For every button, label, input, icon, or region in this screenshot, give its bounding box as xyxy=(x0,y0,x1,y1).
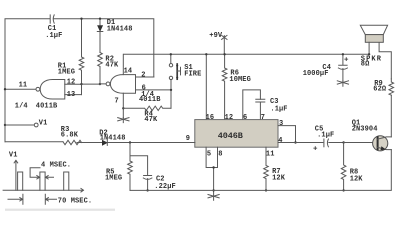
node C5/R8 junction xyxy=(342,141,344,143)
svg-text:.1µF: .1µF xyxy=(270,106,287,114)
resistor R6 xyxy=(222,54,227,119)
svg-text:2: 2 xyxy=(141,71,145,79)
capacitor C5 xyxy=(323,139,325,147)
label pin 5 xyxy=(207,151,211,159)
svg-text:12: 12 xyxy=(67,79,76,87)
svg-text:.1µF: .1µF xyxy=(317,131,334,139)
label pin 6 (IC) xyxy=(243,114,247,122)
op-amp gate U1b 1/4 4011B (second NAND, mirrored) xyxy=(110,75,135,94)
svg-text:V1: V1 xyxy=(9,151,18,159)
resistor R9 xyxy=(389,79,394,95)
svg-text:1N4148: 1N4148 xyxy=(100,135,126,143)
speaker SPKR 8ohm xyxy=(360,25,387,34)
svg-text:+: + xyxy=(313,146,318,154)
ground symbol IC xyxy=(208,190,219,200)
ground symbol gate2 xyxy=(118,118,129,123)
wire IC pin 11 / resistor R7 xyxy=(264,147,269,190)
wire IC pin 16 to rail xyxy=(205,54,207,119)
svg-text:3: 3 xyxy=(279,120,283,128)
label 1/4 4011B gate2 xyxy=(139,91,161,104)
resistor R4 xyxy=(123,106,171,110)
svg-text:FIRE: FIRE xyxy=(184,71,201,79)
resistor R8 xyxy=(341,143,346,191)
label pin 13 xyxy=(67,91,76,99)
svg-text:11: 11 xyxy=(266,151,275,159)
svg-text:1MEG: 1MEG xyxy=(105,174,122,182)
svg-text:1/4: 1/4 xyxy=(15,102,28,110)
svg-text:12: 12 xyxy=(225,114,234,122)
svg-text:+9V: +9V xyxy=(209,32,223,40)
wire V1 probe xyxy=(5,124,34,126)
svg-text:1000µF: 1000µF xyxy=(303,70,329,78)
label R4 xyxy=(144,111,158,125)
wire top rail y=18.7 with left rail xyxy=(5,19,50,142)
svg-text:4046B: 4046B xyxy=(218,131,243,141)
node V1 probe xyxy=(4,124,6,126)
label pin 3 xyxy=(279,120,283,128)
svg-text:1N4148: 1N4148 xyxy=(107,25,133,33)
diode D1 xyxy=(98,26,103,32)
svg-text:10MEG: 10MEG xyxy=(229,76,251,84)
power rail +9V y=54.3 xyxy=(124,53,369,55)
label R6 xyxy=(229,69,251,84)
resistor R3 xyxy=(63,140,82,144)
wire bottom net y=142.5 from left rail to IC pin 9 xyxy=(5,141,63,143)
wire gate1 output pin 11 to left rail xyxy=(5,88,36,90)
svg-text:9: 9 xyxy=(186,135,190,143)
svg-text:7: 7 xyxy=(261,114,265,122)
svg-text:1MEG: 1MEG xyxy=(58,68,75,76)
label pin 8 xyxy=(218,151,222,159)
svg-text:11: 11 xyxy=(19,82,28,90)
resistor R2 xyxy=(98,53,103,67)
svg-text:5: 5 xyxy=(207,151,211,159)
label R2 xyxy=(105,55,119,69)
label 1/4 4011B gate1 xyxy=(15,102,58,110)
svg-text:62Ω: 62Ω xyxy=(373,86,387,94)
svg-text:.22µF: .22µF xyxy=(154,183,176,191)
resistor R1 xyxy=(79,57,84,71)
svg-text:2N3904: 2N3904 xyxy=(352,125,378,133)
annotation 4 MSEC xyxy=(41,161,71,169)
label pin 7 xyxy=(115,97,119,105)
wire IC pin 3 jog to pin 4 net xyxy=(278,126,296,143)
annotation 70 MSEC xyxy=(58,197,92,205)
wire bottom rail xyxy=(130,150,391,191)
transistor Q1 2N3904 xyxy=(373,136,388,151)
svg-text:16: 16 xyxy=(206,114,215,122)
svg-text:70 MSEC.: 70 MSEC. xyxy=(58,197,92,205)
label pin 7 (IC) xyxy=(261,114,265,122)
op-amp gate U1a 1/4 4011B (left NAND, mirrored) xyxy=(40,80,65,100)
wire gate2 output to node xyxy=(82,83,107,85)
svg-text:47K: 47K xyxy=(144,116,158,124)
IC U2 4046B xyxy=(195,120,278,148)
svg-text:V1: V1 xyxy=(39,119,48,127)
wire R1 branch from top rail to gate1 inputs xyxy=(81,19,83,57)
svg-text:47K: 47K xyxy=(105,61,119,69)
svg-text:4: 4 xyxy=(278,137,282,145)
svg-text:12K: 12K xyxy=(272,175,286,183)
capacitor C2 branch xyxy=(130,156,148,191)
node S1 rail junction xyxy=(170,53,172,55)
resistor R5 xyxy=(128,143,133,191)
svg-text:8Ω: 8Ω xyxy=(361,60,370,68)
wire pin 4 net to C5 xyxy=(278,142,323,144)
wire gate1 input pin 12 xyxy=(65,83,82,85)
svg-text:6: 6 xyxy=(243,114,247,122)
svg-text:7: 7 xyxy=(115,97,119,105)
waveform V1 axes xyxy=(9,151,18,159)
wire gate2 pin 14 power stub xyxy=(122,54,124,74)
node S1 bottom / gate2 pin6 junction xyxy=(170,89,172,91)
svg-text:6.8K: 6.8K xyxy=(61,132,79,140)
wire gate2 pin 7 to ground xyxy=(122,93,124,117)
waveform pulse 1 xyxy=(18,172,23,190)
node junction top D1 xyxy=(99,18,101,20)
label pin 12 xyxy=(225,114,234,122)
svg-text:4011B: 4011B xyxy=(139,96,161,104)
svg-text:8: 8 xyxy=(218,151,222,159)
wire gate2 input pin 6 xyxy=(136,89,172,91)
capacitor C4 to ground xyxy=(342,54,344,65)
capacitor C1 xyxy=(49,15,51,23)
node junction R2 to gate2 output wire xyxy=(99,83,101,85)
label pin 2 xyxy=(141,71,145,79)
node junction top R1 xyxy=(80,18,82,20)
power +9V arrow xyxy=(222,35,227,54)
waveform pulse 2 xyxy=(40,172,45,190)
label R1 xyxy=(58,63,75,77)
label pin 6 xyxy=(142,85,146,93)
switch S1 FIRE xyxy=(169,63,172,66)
label C1 xyxy=(45,25,62,40)
wire base to Q1 xyxy=(344,142,373,144)
label pin 11 xyxy=(266,151,275,159)
svg-text:C3: C3 xyxy=(270,98,279,106)
label pin 9 xyxy=(186,135,190,143)
wire collector rail up through R9 to speaker xyxy=(390,95,392,137)
svg-text:.1µF: .1µF xyxy=(45,32,62,40)
node pin7/R4 junction xyxy=(122,107,124,109)
svg-text:13: 13 xyxy=(67,91,76,99)
capacitor C3 loop pins 6,7 xyxy=(243,90,261,120)
wire input tie bar xyxy=(81,84,83,94)
wire IC pins 5 and 8 tie box to ground xyxy=(206,147,217,167)
wire D1/R2 branch xyxy=(99,19,101,26)
diode D2 xyxy=(102,140,107,145)
label pin 4 xyxy=(278,137,282,145)
wire top rail right part to corner down into gate2 input 2 xyxy=(53,19,153,77)
wire gate1 input pin 13 xyxy=(65,94,82,96)
label pin 16 xyxy=(206,114,215,122)
label pin 11 xyxy=(19,82,28,90)
node R5 junction xyxy=(129,141,131,143)
svg-text:4 MSEC.: 4 MSEC. xyxy=(41,161,71,169)
svg-text:14: 14 xyxy=(124,67,133,75)
label pin 14 xyxy=(124,67,133,75)
faint scan smudge bottom-left xyxy=(5,209,115,211)
label D1 xyxy=(107,19,133,33)
svg-text:12K: 12K xyxy=(350,175,364,183)
label pin 12 xyxy=(67,79,76,87)
svg-text:4011B: 4011B xyxy=(36,102,58,110)
ground symbol C4 xyxy=(337,81,348,86)
waveform pulse 3 xyxy=(64,172,69,190)
svg-text:+: + xyxy=(344,57,349,65)
wire gate2 input pin 2 xyxy=(136,76,154,78)
